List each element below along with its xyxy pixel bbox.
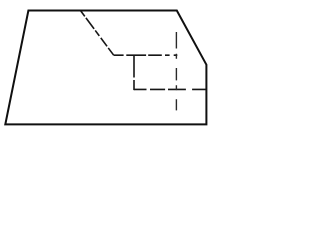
hidden line diagonal D1 [81, 11, 114, 55]
solid outline of block (front view) [5, 11, 206, 125]
hidden line horizontal H1 [114, 54, 178, 56]
hidden line vertical V2 (centre line) [175, 32, 177, 110]
hidden line vertical V1 [133, 56, 135, 91]
hidden line horizontal H2 [134, 88, 206, 90]
